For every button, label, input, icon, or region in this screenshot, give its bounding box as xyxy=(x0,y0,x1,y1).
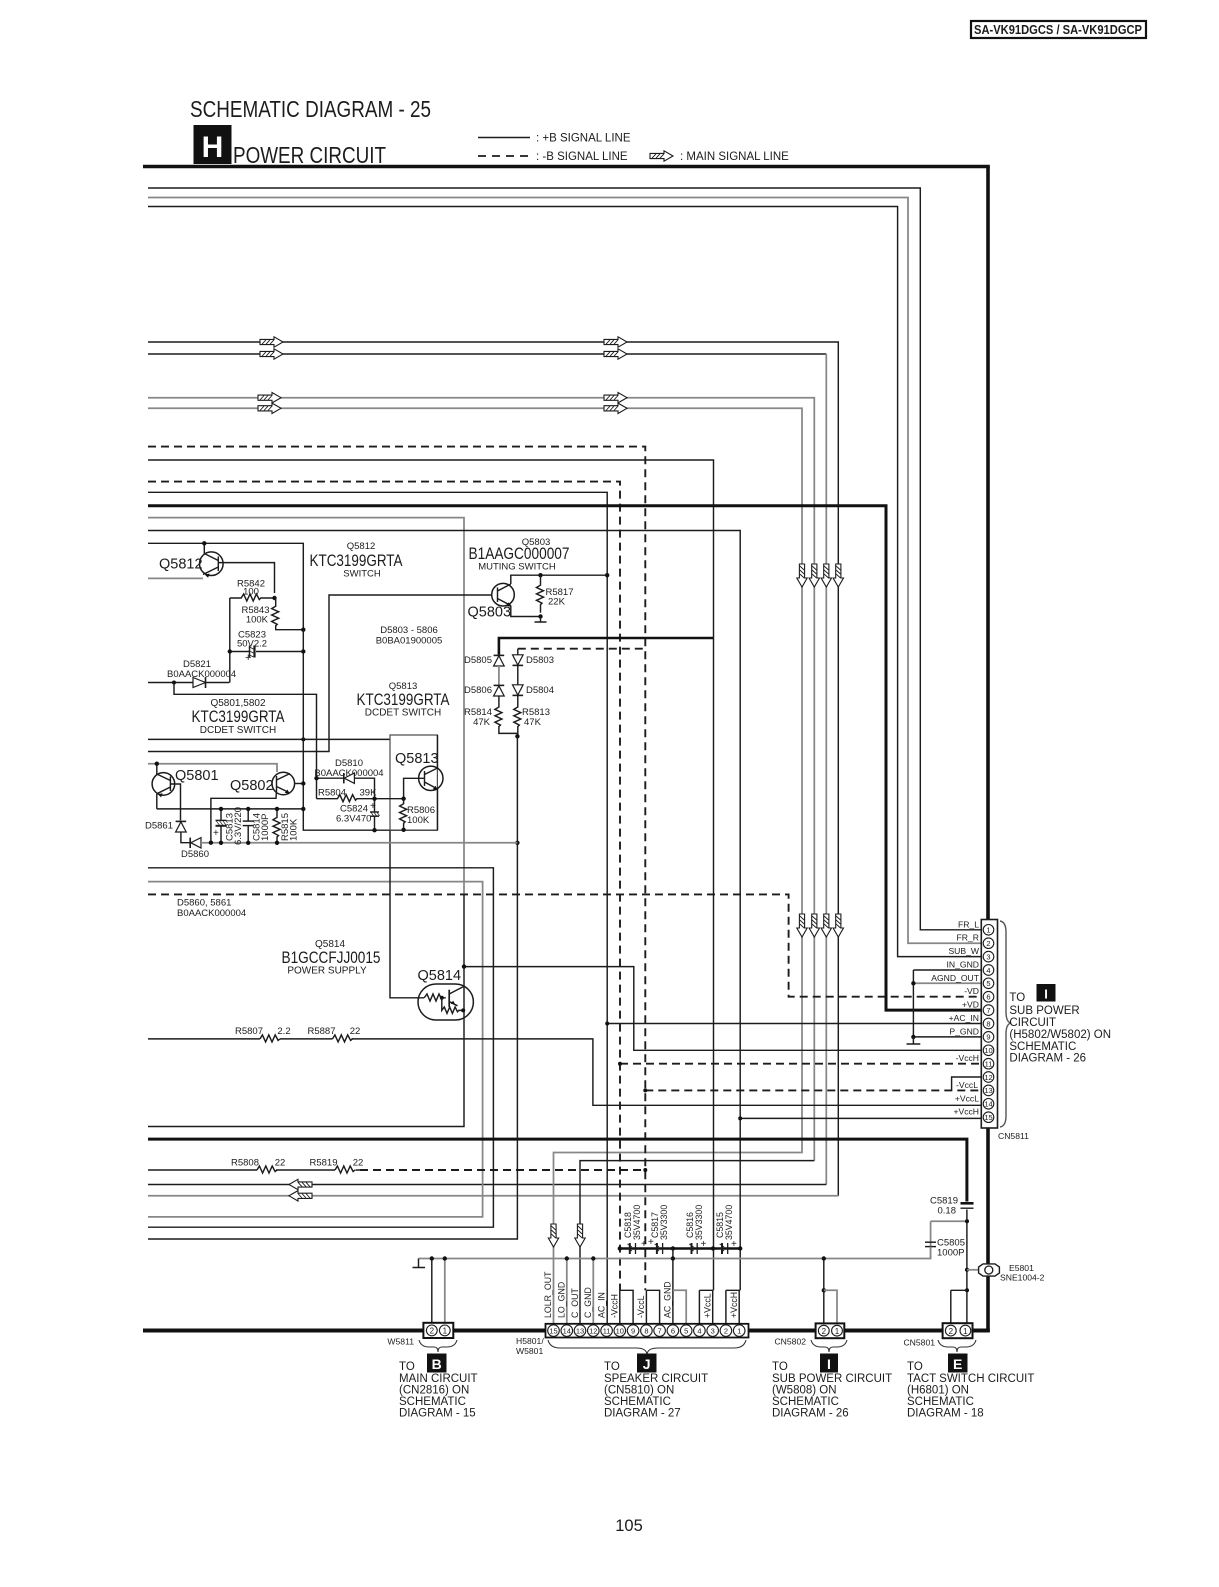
junction Q5802 emitter x303 xyxy=(301,781,305,785)
wire +VccL net (y460 to H5801 pins 4-3) xyxy=(148,460,714,1290)
svg-text:SCHEMATIC: SCHEMATIC xyxy=(604,1396,671,1408)
wire +AC_IN branch to CN5811 pin8 xyxy=(607,1023,983,1025)
svg-text:R5804: R5804 xyxy=(318,788,346,799)
wire R5808/R5819 line solid part xyxy=(148,1169,365,1171)
brace right of CN5811 xyxy=(1000,921,1011,1127)
capacitor C5824 xyxy=(336,797,380,833)
wire x303 vertical Q5812-Q5802 xyxy=(303,630,437,830)
svg-text:W5811: W5811 xyxy=(387,1337,414,1347)
svg-text:7: 7 xyxy=(658,1326,662,1335)
svg-text:E: E xyxy=(953,1356,962,1372)
svg-text:14: 14 xyxy=(984,1100,992,1109)
wire main signal line B xyxy=(148,353,826,355)
connector W5811 xyxy=(387,1323,453,1347)
svg-text:D5860, 5861: D5860, 5861 xyxy=(177,898,231,909)
svg-text:35V3300: 35V3300 xyxy=(694,1205,704,1240)
ground at gray bus left end xyxy=(413,1259,426,1268)
junction cap bus AC_GND xyxy=(671,1246,675,1250)
resistor R5842 xyxy=(230,579,275,602)
wire main signal line A (to left-out arrows) xyxy=(148,342,838,1196)
svg-text:6: 6 xyxy=(986,993,990,1002)
wire C5819 lower line xyxy=(966,1210,968,1324)
junction E5801 stub xyxy=(965,1268,969,1272)
brace under W5811 xyxy=(419,1340,457,1352)
wire FR_R net xyxy=(148,198,983,944)
svg-text:22: 22 xyxy=(350,1026,361,1037)
wire R5842 left leg down xyxy=(229,598,231,683)
part text D5860,5861 xyxy=(177,898,246,920)
svg-text:5: 5 xyxy=(986,979,990,988)
svg-text:(W5808) ON: (W5808) ON xyxy=(772,1385,837,1397)
svg-text:3: 3 xyxy=(711,1326,715,1335)
junction x607 collector bus xyxy=(605,573,609,577)
arrow on line D x258 xyxy=(258,403,281,413)
connector CN5811 body xyxy=(981,920,997,1129)
svg-text:(H5802/W5802) ON: (H5802/W5802) ON xyxy=(1009,1029,1111,1041)
wire +VD thick net xyxy=(148,506,983,1010)
svg-text:AGND_OUT: AGND_OUT xyxy=(931,973,979,983)
dashed branch to D5803 xyxy=(518,648,646,650)
svg-text:11: 11 xyxy=(603,1326,611,1335)
bracket H5801 pins 4-3 xyxy=(699,1290,713,1324)
svg-text:R5887: R5887 xyxy=(308,1026,336,1037)
svg-text:H: H xyxy=(202,131,224,164)
resistor R5808 xyxy=(231,1158,285,1174)
wire D5803 to D5804 xyxy=(517,665,519,684)
wire CN5811 pin15 +VccH branch xyxy=(740,1117,983,1119)
wire x517 vertical to y1239 xyxy=(148,736,517,1239)
capacitor C5815 xyxy=(715,1205,737,1254)
wire D5805 to D5806 xyxy=(498,666,500,686)
svg-text:SWITCH: SWITCH xyxy=(343,569,381,580)
wire W5811 pin1 lead gray xyxy=(444,1259,446,1324)
svg-text:B0BA01900005: B0BA01900005 xyxy=(376,636,443,647)
wire CN5811 pin9 P_GND xyxy=(913,1036,983,1038)
junction R5817 bottom xyxy=(538,614,542,618)
junction AC_GND gray bus xyxy=(671,1256,675,1260)
wire Q5801 collector gray y763.7 xyxy=(148,764,277,772)
svg-text:2: 2 xyxy=(430,1327,435,1336)
wire SUB_W net xyxy=(148,207,983,957)
wire Q5812 collector bus y543 xyxy=(148,543,303,630)
junction AC_IN xyxy=(605,1022,609,1026)
svg-text:1: 1 xyxy=(986,926,990,935)
svg-text:DIAGRAM - 18: DIAGRAM - 18 xyxy=(907,1408,984,1420)
svg-text:-VccL: -VccL xyxy=(636,1295,646,1318)
svg-text:D5805: D5805 xyxy=(464,655,492,666)
capacitor C5817 xyxy=(648,1205,669,1254)
svg-text:9: 9 xyxy=(631,1326,635,1335)
wire gray bus AC_GND y1258.5 xyxy=(419,1242,931,1259)
svg-text:2: 2 xyxy=(949,1327,954,1336)
diode D5821 xyxy=(167,659,236,688)
bracket H5801 pins 8-7 xyxy=(646,1290,659,1324)
wire CN5811 pin5 AGND_OUT gray xyxy=(913,982,983,984)
wire main signal line C (to H5801 pin13 C_OUT) xyxy=(148,398,814,1161)
wire C5805 top link to C5819 line xyxy=(931,1221,968,1242)
svg-text:TO: TO xyxy=(604,1361,620,1373)
CN5811 net labels xyxy=(931,919,980,1116)
junction C5823 left xyxy=(228,649,232,653)
H5801 pin net labels rotated xyxy=(543,1271,739,1318)
connector CN5801 xyxy=(903,1323,972,1347)
junction Q5801 collector xyxy=(155,762,159,766)
wire gnd bus y808.9 xyxy=(157,808,303,810)
svg-text:MAIN CIRCUIT: MAIN CIRCUIT xyxy=(399,1373,478,1385)
wire Q5803 base net y751 xyxy=(148,595,492,752)
svg-text:Q5802: Q5802 xyxy=(230,778,274,794)
section letter H xyxy=(194,125,232,164)
connector H5801/W5801 xyxy=(516,1324,749,1356)
svg-text:: +B SIGNAL LINE: : +B SIGNAL LINE xyxy=(536,133,631,145)
arrow down on LOLR_OUT wire xyxy=(548,1224,558,1247)
svg-text:4: 4 xyxy=(697,1326,701,1335)
svg-text:1000P: 1000P xyxy=(937,1248,964,1259)
resistor R5815 xyxy=(273,807,300,845)
junction D5860-D5810 vertical tap xyxy=(209,841,213,845)
wire AC_GND leg to pins 6-5 xyxy=(672,1249,674,1324)
svg-text:1: 1 xyxy=(737,1326,741,1335)
junction CN5802 pin2 top xyxy=(822,1256,826,1260)
svg-text:11: 11 xyxy=(985,1060,993,1069)
svg-text:IN_GND: IN_GND xyxy=(947,960,979,970)
resistor R5817 xyxy=(537,575,574,613)
svg-text:D5860: D5860 xyxy=(181,849,209,860)
arrow down on line D y567 xyxy=(797,564,807,587)
svg-text:105: 105 xyxy=(615,1517,643,1535)
svg-text:10: 10 xyxy=(984,1046,992,1055)
wire CN5811 pin4 IN_GND xyxy=(913,969,983,971)
junction R5817 top xyxy=(538,573,542,577)
svg-text:5: 5 xyxy=(684,1326,688,1335)
svg-text:35V4700: 35V4700 xyxy=(632,1205,642,1240)
part text D5803-5806 xyxy=(376,625,443,647)
svg-text:6.3V/220: 6.3V/220 xyxy=(233,807,244,845)
svg-text:50V2.2: 50V2.2 xyxy=(237,639,267,650)
svg-text:(CN2816) ON: (CN2816) ON xyxy=(399,1385,469,1397)
svg-text:22: 22 xyxy=(353,1158,364,1169)
svg-text:FR_R: FR_R xyxy=(957,933,979,943)
part text Q5801,5802 group xyxy=(192,698,285,736)
wire cap bus y1248.5 xyxy=(620,1247,740,1249)
svg-text:KTC3199GRTA: KTC3199GRTA xyxy=(310,552,403,570)
svg-text:D5806: D5806 xyxy=(464,685,492,696)
wire Q5812 base feed gray xyxy=(148,577,203,579)
wire H5801 pin14 lead gray xyxy=(566,1259,568,1324)
black box letter E xyxy=(948,1354,968,1373)
svg-text:R5819: R5819 xyxy=(310,1158,338,1169)
svg-text:: MAIN SIGNAL LINE: : MAIN SIGNAL LINE xyxy=(680,151,789,163)
svg-text:1000P: 1000P xyxy=(260,814,271,841)
part text Q5803 group xyxy=(469,537,570,573)
svg-text:D5804: D5804 xyxy=(526,685,554,696)
junction C5823 right xyxy=(301,649,305,653)
junction R5806 top xyxy=(401,797,405,801)
capacitor C5805 xyxy=(925,1238,965,1259)
svg-text:2.2: 2.2 xyxy=(277,1026,290,1037)
wire D5821 input xyxy=(148,682,230,684)
border bottom xyxy=(143,1329,990,1333)
svg-text:2: 2 xyxy=(822,1327,827,1336)
wire FR_L net xyxy=(148,188,983,930)
svg-text:35V4700: 35V4700 xyxy=(724,1205,734,1240)
wire branch to D5810/R5804 via x316 xyxy=(174,683,317,799)
svg-text:22: 22 xyxy=(275,1158,286,1169)
transistor Q5801 xyxy=(152,764,180,821)
svg-text:Q5812: Q5812 xyxy=(159,557,203,573)
svg-text:B0AACK000004: B0AACK000004 xyxy=(167,669,236,680)
svg-text:12: 12 xyxy=(589,1326,597,1335)
svg-text:DIAGRAM - 27: DIAGRAM - 27 xyxy=(604,1408,681,1420)
svg-text:47K: 47K xyxy=(473,717,491,728)
svg-text:SCHEMATIC: SCHEMATIC xyxy=(399,1396,466,1408)
transistor Q5802 xyxy=(211,772,303,843)
black box letter I xyxy=(1037,984,1056,1002)
svg-text:+VD: +VD xyxy=(962,1000,979,1010)
svg-text:SCHEMATIC: SCHEMATIC xyxy=(772,1396,839,1408)
resistor R5804 xyxy=(317,788,405,802)
arrow on line A x604 xyxy=(604,337,627,347)
wire CN5802 step to pin1 gray xyxy=(824,1290,837,1323)
capacitor C5823 xyxy=(230,630,304,665)
svg-text:D5803: D5803 xyxy=(526,655,554,666)
terminal E5801 xyxy=(967,1263,1045,1283)
wire net y881.6 loop to y1217 gray xyxy=(148,882,483,1217)
svg-text:SCHEMATIC: SCHEMATIC xyxy=(907,1396,974,1408)
junction W5811 pin2 xyxy=(430,1256,434,1260)
svg-text:100K: 100K xyxy=(246,615,269,626)
svg-text:6: 6 xyxy=(671,1326,675,1335)
svg-text:6.3V470: 6.3V470 xyxy=(336,814,371,825)
brace under H5801 xyxy=(548,1340,746,1354)
svg-text:W5801: W5801 xyxy=(516,1346,543,1356)
arrow on line D x604 xyxy=(604,403,627,413)
svg-text:8: 8 xyxy=(986,1019,990,1028)
svg-text:0.18: 0.18 xyxy=(938,1206,957,1217)
capacitor C5813 xyxy=(213,807,244,845)
svg-text:TO: TO xyxy=(399,1361,415,1373)
svg-text:CN5811: CN5811 xyxy=(998,1131,1029,1141)
svg-text:SUB POWER CIRCUIT: SUB POWER CIRCUIT xyxy=(772,1373,892,1385)
arrow down on line C y915 xyxy=(809,914,819,937)
svg-text:10: 10 xyxy=(616,1326,624,1335)
ground below R5817 xyxy=(535,617,547,623)
brace under CN5801 xyxy=(938,1340,976,1352)
diode D5860 xyxy=(181,838,209,860)
box around Q5813 xyxy=(390,735,437,830)
arrow down on line B y567 xyxy=(821,564,831,587)
arrow down on line C y567 xyxy=(809,564,819,587)
legend +B line xyxy=(478,133,631,145)
junction W5811 pin1 xyxy=(443,1256,447,1260)
svg-text:TO: TO xyxy=(1009,992,1025,1004)
resistor R5806 xyxy=(400,799,435,830)
svg-text:22K: 22K xyxy=(548,597,566,608)
svg-text:CN5802: CN5802 xyxy=(774,1337,806,1347)
svg-text:2: 2 xyxy=(986,939,990,948)
brace under CN5802 xyxy=(811,1340,847,1352)
svg-text:Q5803: Q5803 xyxy=(468,605,512,621)
svg-text:R5808: R5808 xyxy=(231,1158,259,1169)
svg-text:TACT SWITCH CIRCUIT: TACT SWITCH CIRCUIT xyxy=(907,1373,1034,1385)
svg-text:POWER CIRCUIT: POWER CIRCUIT xyxy=(233,142,386,168)
svg-text:-VccL: -VccL xyxy=(956,1080,978,1090)
part text Q5814 group xyxy=(282,939,381,977)
svg-text:SA-VK91DGCS / SA-VK91DGCP: SA-VK91DGCS / SA-VK91DGCP xyxy=(974,22,1142,37)
svg-text:15: 15 xyxy=(984,1113,992,1122)
svg-text:+VccH: +VccH xyxy=(953,1107,979,1117)
svg-text:(CN5810) ON: (CN5810) ON xyxy=(604,1385,674,1397)
destination text block I xyxy=(1009,992,1111,1065)
wire CN5811 pin12 step to -VccL xyxy=(952,1077,983,1090)
junction dashed pin13 xyxy=(643,1088,647,1092)
diode D5806 xyxy=(464,685,504,696)
arrow on line C x604 xyxy=(604,393,627,403)
svg-text:15: 15 xyxy=(549,1326,557,1335)
arrow on line C x258 xyxy=(258,393,281,403)
svg-text:-VccH: -VccH xyxy=(610,1294,620,1318)
svg-text:KTC3199GRTA: KTC3199GRTA xyxy=(357,691,450,709)
svg-text:SPEAKER CIRCUIT: SPEAKER CIRCUIT xyxy=(604,1373,708,1385)
wire main signal line D (to H5801 pin15 LOLR_OUT) xyxy=(148,408,802,1324)
diode D5861 xyxy=(145,821,186,833)
svg-text:2: 2 xyxy=(724,1326,728,1335)
junction R5813/R5814 bottom xyxy=(515,734,519,738)
black box letter J xyxy=(637,1354,657,1373)
svg-text:1: 1 xyxy=(963,1327,968,1336)
svg-text:+VccL: +VccL xyxy=(955,1093,979,1103)
junction H5801 pin14 xyxy=(565,1256,569,1260)
svg-text:+VccH: +VccH xyxy=(729,1292,739,1318)
border top xyxy=(143,165,990,169)
transistor Q5813 xyxy=(404,735,443,830)
svg-text:(H6801) ON: (H6801) ON xyxy=(907,1385,969,1397)
wire -B dashed net1 (to D5803, H5801 -VccL pins) xyxy=(148,447,645,1291)
wire gray net to Q5814 collector line xyxy=(148,518,464,894)
svg-text:CN5801: CN5801 xyxy=(903,1338,935,1348)
capacitor C5818 xyxy=(623,1205,647,1254)
svg-text:100K: 100K xyxy=(407,815,430,826)
svg-text:AC_GND: AC_GND xyxy=(663,1281,673,1318)
svg-text:9: 9 xyxy=(986,1033,990,1042)
junction +VccH pin15 xyxy=(738,1116,742,1120)
arrow down on line B y915 xyxy=(821,914,831,937)
wire H5801 pin12 lead gray xyxy=(592,1259,594,1324)
arrow on line B x604 xyxy=(604,349,627,359)
legend -B line xyxy=(478,151,628,163)
junction cap bus +VccH xyxy=(738,1246,742,1250)
CN5811 pin circles xyxy=(983,925,994,1123)
wire y739 to Q5813 box xyxy=(148,738,390,740)
wire -VD dashed net y894 to CN5811 pin6 xyxy=(148,894,983,996)
junction Q5814 collector xyxy=(462,964,466,968)
resistor R5807 xyxy=(235,1026,291,1042)
border right lower xyxy=(986,1128,990,1332)
svg-text:LO_GND: LO_GND xyxy=(557,1282,567,1318)
bracket H5801 pins 10-9 xyxy=(620,1290,633,1324)
arrow down on C_OUT wire xyxy=(575,1224,585,1247)
svg-text:SCHEMATIC: SCHEMATIC xyxy=(1009,1041,1076,1053)
svg-text:+VccL: +VccL xyxy=(703,1293,713,1318)
transistor Q5814 (power pack) xyxy=(418,984,473,1020)
wire AC_IN net (y492 to CN5811 pin8 / H5801 pin11) xyxy=(148,492,607,1324)
model number box xyxy=(971,21,1146,38)
resistor R5813 xyxy=(514,695,550,736)
junction D5810 left xyxy=(314,776,318,780)
svg-text:LOLR_OUT: LOLR_OUT xyxy=(543,1271,553,1318)
ground below P_GND junction xyxy=(907,1037,921,1044)
svg-text:47K: 47K xyxy=(524,717,542,728)
CN5811 pin numbers xyxy=(984,926,992,1122)
svg-text:14: 14 xyxy=(563,1326,571,1335)
wire W5811 pin2 lead xyxy=(431,1259,433,1324)
arrow down on line A y915 xyxy=(833,914,843,937)
junction cap bus left xyxy=(618,1246,622,1250)
svg-text:+: + xyxy=(245,652,251,664)
svg-text:B1AAGC000007: B1AAGC000007 xyxy=(469,545,570,563)
part text Q5813 group xyxy=(357,681,450,719)
svg-text:12: 12 xyxy=(984,1073,992,1082)
svg-text:8: 8 xyxy=(644,1326,648,1335)
svg-text:SCHEMATIC DIAGRAM - 25: SCHEMATIC DIAGRAM - 25 xyxy=(190,96,431,122)
junction D5821 input xyxy=(172,681,176,685)
resistor R5814 xyxy=(464,696,517,733)
bracket H5801 pins 6-5 xyxy=(673,1290,686,1324)
svg-text:35V3300: 35V3300 xyxy=(659,1205,669,1240)
svg-text:MUTING SWITCH: MUTING SWITCH xyxy=(478,562,556,573)
wire gray bus y842.8 xyxy=(201,842,517,844)
capacitor C5819 xyxy=(930,1196,974,1217)
arrow down on line D y915 xyxy=(797,914,807,937)
transistor Q5812 xyxy=(200,541,275,593)
svg-text:100: 100 xyxy=(243,587,259,598)
svg-text:H5801/: H5801/ xyxy=(516,1336,544,1346)
junction dashed R5819 xyxy=(643,1168,647,1172)
wire CN5811 pin10 from Q5814 collector xyxy=(464,967,983,1051)
wire Q5814 collector line lower xyxy=(148,894,464,1127)
junction P_GND xyxy=(911,1035,915,1039)
junction gray bus end x517 xyxy=(515,841,519,845)
destination text block B xyxy=(399,1361,478,1420)
svg-text:13: 13 xyxy=(984,1086,992,1095)
svg-text:13: 13 xyxy=(576,1326,584,1335)
svg-text:E5801: E5801 xyxy=(1009,1263,1034,1273)
svg-text:B: B xyxy=(432,1356,442,1372)
junction C5805 link xyxy=(965,1219,969,1223)
part text D5810 xyxy=(314,758,383,779)
svg-text:Q5812: Q5812 xyxy=(347,541,376,552)
arrow left on line B bottom xyxy=(289,1179,312,1189)
svg-text:DIAGRAM - 26: DIAGRAM - 26 xyxy=(772,1408,849,1420)
junction H5801 pin12 xyxy=(591,1256,595,1260)
svg-text:POWER SUPPLY: POWER SUPPLY xyxy=(287,966,367,977)
svg-text:Q5814: Q5814 xyxy=(418,968,462,984)
resistor R5887 xyxy=(308,1026,361,1042)
wire +VccH net (y530 to H5801 pins 2-1) xyxy=(148,531,740,1291)
svg-text:P_GND: P_GND xyxy=(949,1026,979,1036)
junction AGND_OUT xyxy=(911,981,915,985)
svg-text:-VccH: -VccH xyxy=(956,1053,979,1063)
svg-text:1: 1 xyxy=(835,1327,840,1336)
junction cap bus +VccL xyxy=(711,1246,715,1250)
svg-text:+: + xyxy=(213,828,219,839)
part text Q5812 group xyxy=(310,541,403,580)
wire Q5814 base feed gray y997.8 xyxy=(390,830,424,998)
junction dashed pin11 xyxy=(618,1062,622,1066)
wire -B dashed net2 (to CN5811 pin11 / H5801 pin10 -VccH) xyxy=(148,482,620,1291)
svg-text:CIRCUIT: CIRCUIT xyxy=(1009,1017,1056,1029)
capacitor C5816 xyxy=(685,1205,707,1254)
